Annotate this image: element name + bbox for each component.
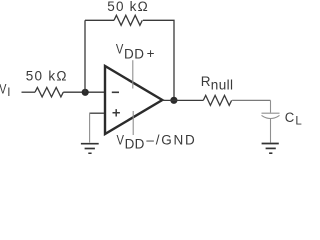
svg-text:V: V [0,81,6,96]
wire R1 to inverting input [63,91,104,93]
wire Rnull to capacitor [232,99,270,101]
svg-text:+: + [147,46,155,61]
wire VI to R1 [22,91,36,93]
svg-text:I: I [7,87,10,99]
op-amp plus symbol [113,109,120,116]
label VDD+ [116,42,155,62]
svg-text:L: L [295,116,302,128]
resistor R1 50 kOhm (input) [35,87,63,97]
node output dot [170,97,177,104]
svg-text:V: V [117,132,125,147]
wire feedback top left [85,19,114,21]
wire non-inverting input to ground corner [90,112,104,114]
node junction dot at inverting input [82,89,89,96]
svg-text:50 kΩ: 50 kΩ [26,68,67,83]
resistor R2 50 kOhm (feedback) [114,15,142,25]
pin VDD- (bottom power pin) [132,111,134,135]
resistor Rnull [203,95,231,105]
svg-text:V: V [116,42,124,57]
ground symbol (left, at non-inverting input) [81,144,99,154]
svg-text:DD: DD [125,137,145,152]
label CL [285,110,303,128]
pin VDD+ (top power pin) [132,60,134,88]
node VI input label [0,81,11,99]
svg-text:–/GND: –/GND [146,132,195,147]
svg-text:DD: DD [124,47,144,62]
wire capacitor bottom stem [270,119,272,143]
label VDD-/GND [117,132,196,151]
capacitor CL [262,113,280,118]
svg-text:null: null [211,78,233,93]
wire feedback left vertical [84,20,86,92]
op-amp minus symbol [112,91,119,93]
op-amp U1 triangle [105,66,162,134]
svg-text:R: R [201,74,211,89]
label Rnull [201,74,233,92]
ground symbol (right, under CL) [262,144,279,154]
svg-text:50 kΩ: 50 kΩ [107,0,147,14]
wire capacitor top stem [270,100,272,112]
svg-text:C: C [285,110,295,125]
wire ground stem (left) [89,113,91,143]
wire output to Rnull [162,99,203,101]
wire feedback top right and right vertical down to output [143,20,174,100]
